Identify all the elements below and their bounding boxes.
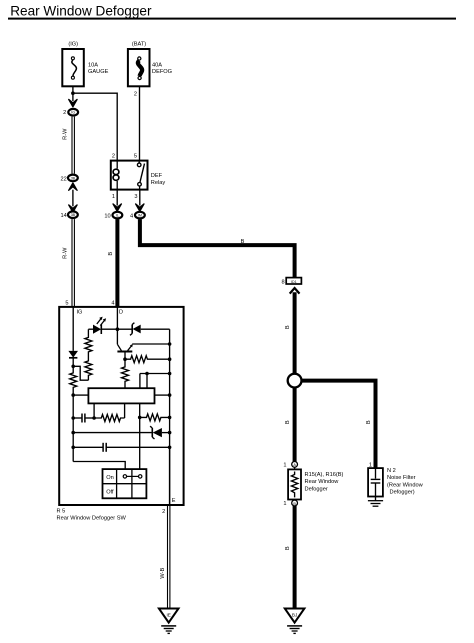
- svg-text:1: 1: [283, 501, 286, 507]
- wire: IG rail down to cap row: [72, 395, 74, 461]
- node: emitter junction right rail: [168, 342, 172, 346]
- arrow down into connector 14: [69, 205, 77, 212]
- svg-text:IG: IG: [71, 111, 75, 115]
- wire: BAT fuse down to relay pin 5: [139, 86, 141, 160]
- svg-text:IG: IG: [77, 310, 83, 316]
- svg-text:40A: 40A: [152, 63, 162, 69]
- svg-text:Rear Window: Rear Window: [305, 479, 340, 485]
- svg-text:8: 8: [281, 280, 284, 286]
- relay DEF Relay: [111, 154, 166, 190]
- svg-text:2: 2: [112, 154, 115, 160]
- svg-text:(Rear Window: (Rear Window: [387, 482, 424, 488]
- svg-text:5: 5: [65, 300, 68, 306]
- svg-text:10A: 10A: [88, 63, 98, 69]
- wire: IC left pin: [73, 394, 88, 396]
- relay coil: [116, 161, 118, 169]
- svg-text:IE: IE: [167, 613, 171, 618]
- noise filter N2: [368, 463, 424, 507]
- junction connector 3B pin 14 (oval): [61, 211, 78, 219]
- svg-text:Relay: Relay: [151, 180, 166, 186]
- fuse F1 10A GAUGE (IG): [62, 42, 108, 87]
- svg-text:N 2: N 2: [387, 468, 396, 474]
- svg-text:B: B: [285, 420, 291, 424]
- splice circle: [288, 374, 302, 388]
- svg-text:D: D: [119, 310, 123, 316]
- node: dot right rail zener row: [168, 431, 172, 435]
- svg-text:3B: 3B: [71, 176, 76, 180]
- fuse F2 40A DEFOG (BAT): [128, 42, 172, 98]
- svg-text:(IG): (IG): [68, 42, 78, 48]
- node: dot row1 cap node: [92, 416, 96, 420]
- svg-text:Defogger): Defogger): [390, 490, 415, 496]
- wire: junction down to connector IG: [72, 93, 74, 101]
- svg-text:(BAT): (BAT): [132, 42, 146, 48]
- zener diode ZD1 top row: [117, 323, 169, 336]
- svg-text:3B: 3B: [71, 213, 76, 217]
- wire jog: junction to resistor chain bottom: [73, 366, 88, 380]
- wire B (thick): splice right and down to noise filter: [302, 381, 376, 469]
- svg-text:4: 4: [111, 300, 114, 306]
- svg-text:R 5: R 5: [57, 508, 66, 514]
- connector IM pin 4 (oval): [130, 212, 145, 220]
- svg-text:R15(A), R16(B): R15(A), R16(B): [305, 472, 344, 478]
- svg-text:3: 3: [134, 194, 137, 200]
- switch box R5 Rear Window Defogger SW: [57, 300, 184, 521]
- svg-text:Off: Off: [106, 490, 114, 496]
- svg-text:W-B: W-B: [160, 568, 166, 579]
- wire: relay pin 3 down: [134, 190, 139, 206]
- connector ID1 pin 8 (rect): [281, 278, 301, 286]
- svg-text:1: 1: [283, 462, 286, 468]
- wire B (thick): connector IL down to switch box pin D: [108, 219, 117, 307]
- svg-text:R-W: R-W: [62, 128, 68, 140]
- svg-text:2: 2: [63, 110, 66, 116]
- capacitor C1 row1: [73, 414, 94, 423]
- node: IG rail dot row1: [71, 416, 75, 420]
- wire: IC right pin to right rail: [155, 394, 170, 396]
- svg-text:R-W: R-W: [62, 247, 68, 259]
- node: dot right rail row1: [168, 416, 172, 420]
- svg-text:Rear Window Defogger SW: Rear Window Defogger SW: [57, 515, 127, 521]
- wire: D rail into transistor collector: [117, 307, 121, 351]
- resistor R4 base down to IC: [122, 359, 129, 388]
- svg-text:Defogger: Defogger: [305, 486, 328, 492]
- wire: IG fuse down to junction: [72, 86, 74, 93]
- wire: LED chain down with resistors: [85, 329, 92, 380]
- node: dot right rail at 395.1: [168, 393, 172, 397]
- svg-text:B: B: [241, 239, 245, 245]
- rear window defogger R15(A) R16(B): [283, 462, 343, 508]
- node: base resistor right rail junction: [168, 357, 172, 361]
- wire: IC top pins row: [140, 374, 170, 389]
- svg-text:BJ: BJ: [292, 613, 297, 618]
- svg-text:DEF: DEF: [151, 173, 163, 179]
- IC block U1: [88, 388, 154, 403]
- svg-text:5: 5: [134, 154, 137, 160]
- node: dot on that wire at row1 right: [138, 416, 142, 420]
- wire B (thick): connector ID1 down to splice: [285, 292, 295, 373]
- diode D1 on IG rail: [68, 351, 78, 366]
- node: dot on IC top pin row: [145, 372, 149, 376]
- arrow into connector IM: [136, 204, 144, 211]
- svg-text:B: B: [108, 252, 114, 256]
- svg-text:On: On: [106, 475, 114, 481]
- svg-text:IL: IL: [116, 214, 119, 218]
- svg-text:GAUGE: GAUGE: [88, 69, 109, 75]
- node: junction on IG rail: [71, 365, 75, 369]
- title: Rear Window Defogger: [8, 3, 456, 19]
- svg-text:B: B: [366, 420, 372, 424]
- svg-text:DEFOG: DEFOG: [152, 69, 172, 75]
- svg-text:10: 10: [104, 214, 110, 220]
- node: dot right rail cap row: [168, 446, 172, 450]
- node: D rail junction at LED row: [116, 327, 120, 331]
- svg-text:IM: IM: [138, 214, 142, 218]
- wire: branch from junction to relay pin 2: [73, 93, 117, 160]
- wire B (thick): splice down to defogger pin A: [285, 388, 295, 462]
- junction connector 3B pin 22 (oval): [61, 175, 78, 183]
- wire jog: IG rail into switch contact: [73, 462, 125, 470]
- defogger switch contacts block: [103, 469, 147, 498]
- wire B (thick): defogger pin B down to ground BJ: [285, 506, 295, 609]
- svg-text:B: B: [285, 546, 291, 550]
- svg-text:E: E: [172, 498, 176, 504]
- wire: IC bottom pin down to switch: [139, 403, 141, 469]
- node: dot right rail at 373.5: [168, 372, 172, 376]
- resistor R6 row1 right: [140, 414, 170, 421]
- connector IG (oval), pin 2: [63, 109, 78, 116]
- wire B (thick): connector IM right and down to connector ID1: [140, 219, 295, 277]
- wire R-W: connector IG to junction connector 22 (double line): [62, 117, 74, 174]
- arrow into connector IL: [113, 204, 121, 211]
- svg-text:Rear Window Defogger: Rear Window Defogger: [10, 3, 152, 18]
- wire between junction connectors: [72, 190, 74, 207]
- svg-text:ID1: ID1: [291, 280, 297, 284]
- svg-text:14: 14: [61, 213, 67, 219]
- node: junction dot below IG fuse: [71, 91, 75, 95]
- node: IG rail dot zener row: [71, 431, 75, 435]
- wire: emitter to right rail: [132, 343, 169, 345]
- zener diode ZD2 row: [73, 426, 169, 439]
- wire: cap node up to IC: [93, 403, 95, 418]
- wire W-B: box pin E down to ground IE (double line): [160, 505, 170, 609]
- ground BJ: [285, 609, 305, 634]
- arrow up into connector 22: [69, 183, 77, 190]
- relay switch: [138, 161, 140, 164]
- transistor Q1: [117, 344, 132, 359]
- node: base junction: [123, 357, 127, 361]
- LED indicator: [88, 317, 117, 334]
- svg-text:4: 4: [130, 214, 133, 220]
- wire: relay pin 1 down: [112, 190, 117, 206]
- resistor R3 base to right rail: [125, 356, 170, 363]
- svg-text:2: 2: [162, 509, 165, 515]
- arrow into connector IG: [69, 99, 77, 106]
- svg-text:Noise Filter: Noise Filter: [387, 475, 416, 481]
- svg-text:1: 1: [112, 194, 115, 200]
- arrow chevron below ID1: [290, 288, 300, 294]
- wire: E rail exit from box: [169, 447, 171, 505]
- resistor R5 row1: [94, 403, 125, 421]
- node: IG rail dot cap row: [71, 446, 75, 450]
- connector IL pin 10 (oval): [104, 212, 122, 220]
- right rail inside box: [169, 329, 171, 505]
- node: junction IG rail at IC left pin: [71, 393, 75, 397]
- svg-text:22: 22: [61, 176, 67, 182]
- resistor R2 on IG rail: [70, 366, 77, 395]
- wire: IG rail inside box: [72, 307, 74, 351]
- ground IE: [159, 609, 179, 634]
- svg-text:B: B: [285, 325, 291, 329]
- wire R-W: connector 14 down to switch box pin IG (double line): [62, 219, 74, 307]
- svg-text:2: 2: [134, 92, 137, 98]
- capacitor C2 row: [73, 443, 169, 452]
